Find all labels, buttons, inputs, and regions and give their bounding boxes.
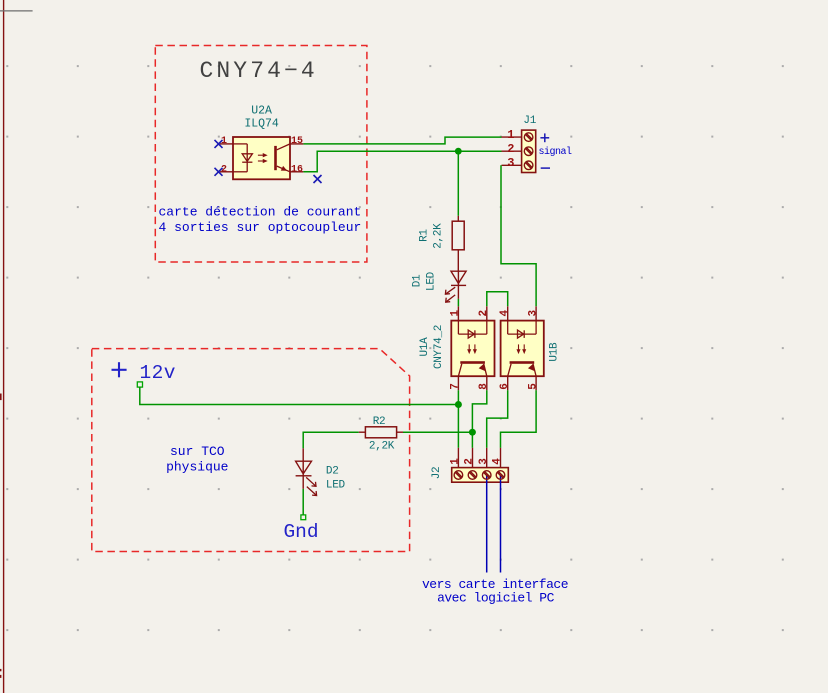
diode D2 LED symbol: [296, 461, 312, 476]
wire: D2 anode pin stub: [302, 448, 304, 461]
SHEET1: [155, 46, 367, 263]
svg-text:7: 7: [450, 383, 462, 390]
node: J1 screw terminal 1: [524, 133, 533, 142]
svg-text:CNY74_2: CNY74_2: [433, 325, 445, 369]
node: +12v dangling wire end square: [137, 382, 142, 387]
node: J1 screw terminal 3: [524, 161, 533, 170]
R1D1: [412, 216, 467, 303]
svg-text:D2: D2: [326, 466, 339, 478]
diode: U2A internal LED: [233, 144, 252, 172]
connector J1 body: [522, 130, 536, 172]
node: dashed outline box "sur TCO physique": [92, 349, 410, 552]
node: dashed outline box "carte detection": [155, 46, 367, 263]
wire: U1B pin6 jog to J2 pin3: [487, 390, 508, 447]
no-connect X on pin 1: [215, 140, 223, 148]
node: junction dot 12v rail: [455, 401, 462, 408]
wire: frame tick mark left edge: [0, 394, 2, 401]
U1: [419, 306, 561, 390]
wire: J2 pin 4 stub: [500, 448, 502, 468]
svg-text:3: 3: [478, 458, 490, 465]
R2D2: [296, 416, 403, 496]
node: J2 screw terminal 3: [482, 471, 491, 480]
svg-text:LED: LED: [326, 479, 346, 491]
svg-text:1: 1: [450, 310, 462, 317]
svg-text:15: 15: [291, 136, 303, 147]
wire: J1 pin 3 stub: [502, 164, 522, 166]
wire: U2A pin16 to J1 pin2: [303, 151, 501, 172]
svg-text:J2: J2: [431, 467, 443, 480]
svg-text:6: 6: [499, 383, 511, 390]
SHEET2: [92, 349, 410, 552]
svg-text:Gnd: Gnd: [283, 521, 318, 543]
wire: J1 pin3 to U1B pin3: [501, 165, 536, 306]
svg-text:4 sorties sur optocoupleur: 4 sorties sur optocoupleur: [159, 220, 362, 235]
node: U2A light arrows: [258, 154, 266, 162]
node: J2 screw terminal 2: [468, 471, 477, 480]
wire: U1A pin8 jog to J2 pin2: [472, 390, 486, 447]
wire: R2 left to D2 anode: [303, 432, 359, 448]
svg-text:ILQ74: ILQ74: [244, 118, 279, 131]
node: J2 screw terminal 1: [454, 471, 463, 480]
svg-text:2: 2: [478, 310, 490, 317]
wire: U1A pin2 bridge to U1B pin4: [487, 292, 508, 307]
svg-text:vers carte interface: vers carte interface: [422, 577, 568, 592]
svg-text:U1A: U1A: [419, 337, 431, 357]
svg-text:2,2K: 2,2K: [433, 223, 445, 249]
wire: J1 pin 1 stub: [502, 136, 522, 138]
wire: blue interface wire from J2 pin 3: [486, 475, 488, 573]
wire: blue interface wire from J2 pin 4: [500, 475, 502, 573]
resistor R1 body: [452, 221, 464, 250]
svg-text:3: 3: [507, 156, 514, 170]
svg-text:CNY74−4: CNY74−4: [200, 58, 318, 84]
J1: [502, 115, 573, 173]
node: Gnd dangling wire end square: [301, 515, 306, 520]
wire: U2A pin 16 stub: [290, 171, 303, 173]
node: D1 emission arrows: [445, 287, 455, 302]
wire: U2A pin 15 stub: [290, 143, 303, 145]
svg-text:U2A: U2A: [251, 104, 272, 117]
wire: R2 right to junction: [403, 431, 472, 433]
svg-text:2: 2: [464, 458, 476, 465]
node: J2 screw terminal 4: [496, 471, 505, 480]
wire: D1 cathode to U1A pin1: [457, 299, 459, 306]
wire: J2 pin 1 stub: [457, 448, 459, 468]
optocoupler U1B body: [501, 306, 544, 390]
wire: R1 top pin stub: [457, 216, 459, 222]
wire: frame tick marks bottom left edge: [0, 669, 1, 671]
wire: U2A pin15 to J1 pin1: [303, 137, 501, 144]
node: junction dot J1 pin2 net: [455, 148, 462, 155]
resistor R2 body: [365, 427, 396, 438]
svg-text:2: 2: [507, 142, 514, 156]
svg-text:avec logiciel PC: avec logiciel PC: [437, 591, 555, 606]
wire: sheet frame left border line: [3, 0, 5, 693]
U2A: [215, 104, 304, 179]
wire: J1 pin 2 stub: [502, 150, 522, 152]
svg-text:1: 1: [450, 458, 462, 465]
svg-text:2: 2: [221, 164, 227, 175]
svg-text:LED: LED: [426, 271, 438, 291]
svg-text:1: 1: [221, 136, 227, 147]
no-connect X below pin16 corner: [314, 175, 322, 183]
wire: J2 pin 2 stub: [472, 448, 474, 468]
wire: R2 right pin stub: [397, 431, 403, 433]
wire: R2 left pin stub: [359, 431, 366, 433]
no-connect X on pin 2: [215, 168, 223, 176]
diode D1 LED symbol: [451, 271, 466, 299]
svg-text:D1: D1: [412, 274, 424, 287]
svg-text:signal: signal: [539, 146, 573, 158]
wire: R1 bottom pin to D1 anode: [457, 250, 459, 271]
J2: [422, 448, 568, 606]
wire: J2 pin 3 stub: [486, 448, 488, 468]
wire: +12v rail to junction: [140, 387, 459, 405]
svg-text:R1: R1: [419, 229, 431, 242]
node: J1 screw terminal 2: [524, 147, 533, 156]
node: label minus: [541, 167, 550, 169]
wire: U2A pin 1 stub: [220, 143, 233, 145]
svg-text:U1B: U1B: [549, 342, 561, 362]
svg-text:4: 4: [499, 310, 511, 317]
wire: junction to R1: [457, 151, 459, 216]
wire: D2 cathode to Gnd: [302, 489, 304, 515]
svg-text:1: 1: [507, 128, 514, 142]
transistor: U2A phototransistor: [274, 144, 290, 172]
FRAME: [0, 0, 33, 693]
wire: U1A pin7 down to J2 pin1: [457, 390, 459, 447]
optocoupler U2A body: [233, 137, 290, 179]
svg-text:5: 5: [527, 383, 539, 390]
optocoupler U1A body: [451, 306, 494, 390]
svg-text:2,2K: 2,2K: [369, 441, 395, 453]
svg-text:sur TCO: sur TCO: [170, 444, 225, 459]
svg-text:8: 8: [478, 383, 490, 390]
svg-text:4: 4: [492, 458, 504, 465]
svg-text:physique: physique: [166, 459, 228, 474]
node: junction dot R2 net: [469, 429, 476, 436]
wire: U1B pin5 jog to J2 pin4: [501, 390, 537, 447]
svg-text:J1: J1: [523, 115, 536, 127]
wire: sheet frame top-left gray divider line: [0, 10, 33, 12]
svg-text:carte détection de courant: carte détection de courant: [159, 205, 362, 220]
svg-text:12v: 12v: [140, 362, 176, 384]
svg-text:3: 3: [527, 310, 539, 317]
node: label plus: [540, 133, 549, 142]
connector J2 body: [452, 468, 509, 483]
node: label + 12v: [112, 362, 127, 377]
svg-text:16: 16: [291, 164, 303, 175]
wire: D2 cathode pin stub: [302, 476, 304, 489]
wire: U2A pin 2 stub: [220, 171, 233, 173]
node: D2 emission arrows: [306, 477, 316, 495]
